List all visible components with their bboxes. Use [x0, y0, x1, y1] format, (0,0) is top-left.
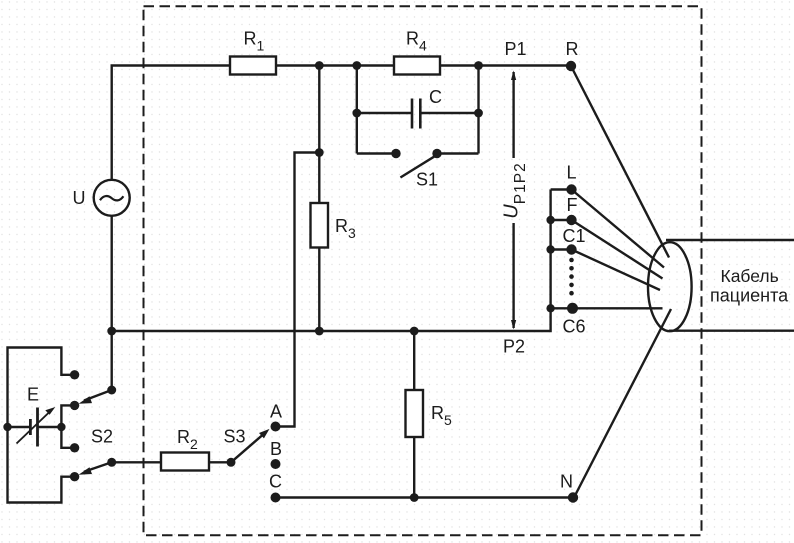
E right junction [57, 423, 65, 431]
wire: bottom bus P2 [112, 190, 551, 332]
junction L-bus C6 [546, 304, 554, 312]
resistor R4 [394, 57, 440, 75]
node F [566, 215, 576, 225]
svg-text:P1: P1 [505, 39, 527, 59]
switch S3 lever [231, 432, 266, 462]
wire: R2 to S3 pivot [209, 461, 231, 463]
junction node parallel block right [474, 61, 483, 70]
node C6 [567, 303, 578, 314]
capacitor C branch wires [357, 112, 412, 114]
capacitor C plates [411, 99, 414, 129]
wire: diagonal L to connector [572, 190, 665, 268]
svg-text:C: C [269, 472, 282, 492]
junction node C branch left [352, 109, 361, 118]
wire: diagonal R to connector [571, 66, 669, 258]
E contacts branch [61, 405, 74, 447]
switch S1 left contact [391, 149, 400, 158]
wire: L stub [551, 188, 572, 190]
junction node R3 tap [315, 148, 324, 157]
arrowhead of S2 upper lever [79, 396, 93, 404]
svg-text:N: N [560, 471, 573, 491]
connector ellipse [648, 242, 692, 331]
switch S2 upper lever [84, 390, 112, 401]
resistor R5 [406, 390, 424, 437]
resistor R3 bottom wire [318, 248, 320, 332]
dimension arrow U_P1P2 [512, 72, 514, 158]
resistor R2 [161, 453, 209, 471]
sine symbol inside U1 [100, 196, 123, 200]
wire: bus to S2 upper pivot [110, 331, 112, 390]
resistor R5 bottom wire [413, 437, 415, 498]
junction node bus left [107, 327, 116, 336]
S2 upper pivot [107, 386, 116, 395]
switch S1 lever [400, 154, 438, 178]
switch S1 branch wires [357, 152, 396, 154]
wire: F stub [551, 219, 572, 221]
E element plates [29, 419, 32, 435]
battery E loop: top contact to left rail to bottom contact [8, 348, 75, 503]
S2 contact 3 [70, 443, 79, 452]
junction node top of R3 branch [315, 61, 324, 70]
junction L-bus F [546, 216, 554, 224]
svg-text:A: A [270, 402, 282, 422]
wire: diagonal C1 to connector [572, 250, 661, 291]
S2 contact 4 [70, 472, 79, 481]
wire: patient cable top lead [666, 239, 794, 241]
E rail junction [3, 423, 11, 431]
wire: C6 horizontal to connector [573, 307, 663, 309]
E element horizontal wires [8, 426, 31, 428]
node A [271, 422, 281, 432]
junction bottom wire R5 [410, 493, 419, 502]
junction L-bus C1 [546, 245, 554, 253]
svg-text:S2: S2 [91, 427, 113, 447]
svg-text:P2: P2 [503, 337, 525, 357]
wire: patient cable bottom lead [669, 330, 794, 332]
junction node parallel block left [352, 61, 361, 70]
svg-text:C1: C1 [563, 226, 586, 246]
svg-text:S3: S3 [224, 427, 246, 447]
node L [566, 184, 576, 194]
resistor R5 top wire [413, 331, 415, 390]
dashed enclosure border [144, 6, 702, 535]
switch S1 right contact [432, 149, 441, 158]
wire: top horizontal net from U to R node [112, 66, 571, 181]
wire: diagonal N to connector [574, 309, 671, 498]
svg-text:S1: S1 [416, 170, 438, 190]
wire: parallel block right vertical [477, 66, 479, 154]
node C contact [271, 493, 281, 503]
S2 contact 2 [70, 401, 79, 410]
resistor R3 [311, 203, 329, 248]
S3 pivot [227, 458, 236, 467]
svg-text:C6: C6 [563, 317, 586, 337]
resistor R3 branch top wire [318, 66, 320, 204]
S2 lower pivot [107, 458, 116, 467]
svg-text:R: R [566, 39, 579, 59]
svg-text:B: B [270, 439, 282, 459]
node C1 [566, 244, 576, 254]
arrowhead of S2 lower lever [79, 467, 93, 475]
node B [271, 459, 281, 469]
wire: C1 stub [551, 248, 572, 250]
wire: U bottom to bus [110, 215, 112, 331]
wire: A-contact branch to R3 node [276, 153, 320, 427]
arrowhead of S3 lever [259, 429, 270, 439]
svg-text:F: F [567, 195, 578, 215]
E adjustment arrow [17, 411, 52, 444]
switch S2 lower lever [84, 462, 112, 471]
svg-text:Кабель: Кабель [721, 266, 779, 286]
junction node bus R5 [410, 327, 419, 336]
arrowhead of U_P1P2 down [511, 320, 516, 330]
wire: parallel block left vertical [356, 66, 358, 154]
junction node bus R3 [315, 327, 324, 336]
svg-text:C: C [429, 87, 442, 107]
node R [566, 61, 576, 71]
arrowhead of E arrow [45, 407, 55, 415]
node N [568, 492, 578, 502]
wire: bottom wire C contact to N [276, 496, 574, 498]
resistor R1 [230, 57, 276, 75]
wire: S2 lower pivot to R2 [112, 461, 161, 463]
svg-text:пациента: пациента [710, 286, 789, 306]
svg-text:E: E [27, 385, 39, 405]
wire: diagonal F to connector [572, 220, 663, 279]
svg-text:L: L [567, 163, 577, 183]
svg-text:U: U [73, 188, 86, 208]
junction node C branch right [474, 109, 483, 118]
S2 contact 1 [70, 370, 79, 379]
voltage source U1 circle [94, 180, 130, 216]
ellipsis dots between C1 and C6 [569, 258, 574, 263]
wire: C6 stub [551, 307, 573, 309]
arrowhead of U_P1P2 up [511, 71, 516, 81]
